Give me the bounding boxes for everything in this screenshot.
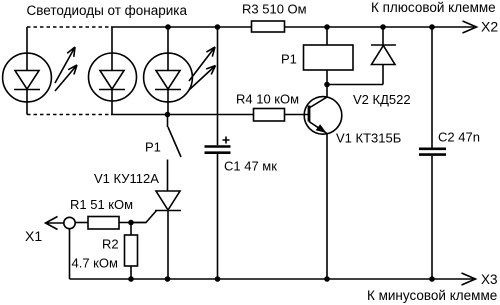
svg-text:R1 51 кОм: R1 51 кОм	[70, 197, 133, 212]
light arrow 2 of LED VD3	[189, 66, 216, 91]
svg-text:R2: R2	[102, 237, 119, 252]
wire relay to collector node	[326, 70, 328, 85]
terminal X2 arrow	[463, 21, 477, 33]
wire C1 branch vertical upper	[217, 27, 219, 145]
junction dot gate node	[128, 220, 134, 226]
svg-text:К минусовой клемме: К минусовой клемме	[367, 288, 497, 303]
svg-text:Светодиоды от фонарика: Светодиоды от фонарика	[27, 3, 188, 18]
wire R2 to bottom rail	[130, 266, 132, 279]
wire R4 to transistor base	[285, 114, 309, 116]
terminal X1 arrow	[46, 217, 64, 230]
wire LED bottom rail to R4	[111, 114, 254, 116]
wire LED bottom rail dashed segment	[27, 114, 111, 116]
wire collector node to diode	[327, 84, 383, 86]
junction dot switch top	[165, 112, 171, 118]
wire top rail solid right	[285, 26, 475, 28]
capacitor C1	[205, 137, 231, 153]
wire bottom rail	[70, 278, 474, 280]
svg-text:Х1: Х1	[25, 228, 42, 244]
svg-text:V1 КТ315Б: V1 КТ315Б	[336, 131, 401, 146]
svg-text:Х3: Х3	[481, 272, 498, 287]
light arrow 1 of LED VD1	[55, 47, 75, 83]
svg-text:Р1: Р1	[281, 52, 297, 67]
wire top rail to relay	[326, 27, 328, 45]
terminal X3 arrow	[462, 273, 476, 285]
LED VD2	[89, 27, 137, 115]
junction dot bottom C1	[215, 276, 221, 282]
LED VD1	[3, 27, 52, 115]
junction dot bottom thyristor	[165, 276, 171, 282]
LED VD3	[144, 27, 193, 115]
junction dot top C1 branch	[215, 24, 221, 30]
svg-text:Х2: Х2	[481, 19, 498, 35]
wire gate node to R2	[130, 223, 132, 236]
junction dot top C2	[429, 24, 435, 30]
diode V2	[371, 27, 396, 85]
svg-text:C2 47n: C2 47n	[438, 130, 480, 145]
light arrow 2 of LED VD1	[55, 65, 77, 91]
wire R1 to gate node	[119, 222, 146, 224]
wire top rail dashed segment	[27, 26, 111, 28]
switch P1	[168, 115, 182, 192]
svg-text:V2 КД522: V2 КД522	[353, 92, 411, 107]
resistor R2	[125, 235, 138, 266]
capacitor C2	[419, 27, 446, 279]
junction dot top LED3	[165, 24, 171, 30]
junction dot bottom R2	[128, 276, 134, 282]
resistor R4	[254, 109, 285, 122]
svg-text:R3 510 Ом: R3 510 Ом	[242, 2, 307, 17]
wire X1 circle to R1	[75, 222, 88, 224]
transistor V1	[304, 85, 342, 280]
terminal X1 circle	[64, 217, 75, 228]
wire X1 down	[69, 229, 71, 279]
svg-text:С1 47 мк: С1 47 мк	[224, 159, 277, 174]
svg-text:V1 КУ112А: V1 КУ112А	[94, 171, 159, 186]
relay coil P1	[304, 45, 354, 70]
svg-text:Р1: Р1	[145, 140, 161, 155]
resistor R1	[88, 217, 119, 230]
svg-text:4.7 кОм: 4.7 кОм	[72, 256, 118, 271]
wire C1 to bottom rail	[217, 154, 219, 279]
junction dot collector node	[324, 82, 330, 88]
svg-text:R4 10 кОм: R4 10 кОм	[236, 92, 299, 107]
junction dot bottom emitter	[324, 276, 330, 282]
junction dot bottom C2	[429, 276, 435, 282]
junction dot top relay	[324, 24, 330, 30]
resistor R3	[252, 21, 285, 32]
svg-text:К плюсовой клемме: К плюсовой клемме	[371, 0, 496, 15]
junction dot top diode	[380, 24, 386, 30]
thyristor V1	[131, 191, 181, 279]
wire top rail solid left	[111, 26, 252, 28]
light arrow 1 of LED VD3	[189, 47, 215, 81]
